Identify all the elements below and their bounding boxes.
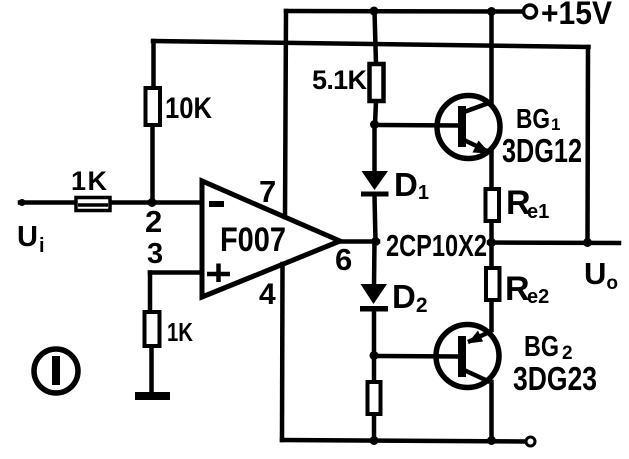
wire pin3 horizontal (150, 270, 202, 275)
svg-text:5.1K: 5.1K (312, 65, 368, 95)
resistor bottom unlabeled (368, 382, 381, 414)
resistor R 5.1K (370, 64, 384, 101)
op-amp noninverting plus mark (207, 264, 230, 283)
wire 1K bottom to ground (149, 346, 154, 393)
resistor Re2 (486, 268, 500, 300)
svg-text:BG: BG (516, 103, 550, 134)
transistor Q2 BG2 (436, 325, 499, 388)
wire bottom rail (282, 440, 525, 442)
svg-text:2CP10X2: 2CP10X2 (386, 228, 487, 263)
svg-text:2: 2 (145, 204, 162, 239)
svg-text:+15V: +15V (541, 0, 613, 31)
node junction dot bottom rail left (370, 436, 379, 445)
wire input line (20, 200, 200, 205)
svg-text:e1: e1 (527, 201, 549, 223)
wire pin4 vertical (280, 264, 285, 440)
wire feedback top horizontal (153, 41, 589, 47)
wire BG2 base (374, 354, 459, 359)
wire Re2 to BG2 emitter (489, 300, 494, 330)
svg-text:3DG12: 3DG12 (502, 132, 582, 169)
wire 5.1K top (375, 11, 377, 64)
diode D1 (361, 171, 389, 197)
node junction dot op-amp output (371, 237, 380, 246)
wire D1 top (372, 125, 377, 173)
svg-text:4: 4 (259, 278, 276, 311)
transistor Q1 BG1 (437, 96, 500, 159)
wire output right segment (489, 240, 619, 245)
wire BG1 emitter vertical (489, 152, 494, 189)
resistor R 1K input (76, 198, 110, 211)
diode D2 (360, 284, 388, 312)
wire BG1 collector vertical (489, 12, 494, 103)
wire 5.1K bottom (375, 101, 376, 125)
svg-text:3DG23: 3DG23 (513, 360, 597, 397)
wire top +15V rail (286, 9, 521, 14)
node junction dot BG2 base (370, 351, 379, 360)
node junction dot top rail right (487, 7, 496, 16)
node +15V open terminal (524, 5, 537, 18)
resistor Re1 (486, 189, 500, 221)
node junction dot Uo (583, 238, 592, 247)
node junction dot BG1 base (370, 120, 379, 129)
svg-text:R: R (505, 270, 530, 308)
wire op-amp output (340, 239, 378, 244)
wire BG1 base (375, 123, 460, 128)
svg-text:BG: BG (524, 331, 559, 363)
wire D2 top (372, 242, 377, 287)
svg-text:10K: 10K (165, 92, 212, 125)
wire 10K branch lower to node 2 (150, 125, 155, 202)
node bottom-right open terminal (526, 437, 535, 446)
resistor R 10K (146, 88, 161, 125)
op-amp U1 F007 triangle (202, 181, 340, 297)
svg-text:1K: 1K (71, 166, 108, 196)
svg-text:e2: e2 (527, 286, 549, 308)
wire bottom resistor lower (372, 414, 377, 441)
ground (135, 392, 170, 400)
wire output node to Re2 (489, 243, 494, 269)
op-amp inverting minus mark (209, 201, 224, 207)
node junction dot bottom rail right (487, 436, 496, 445)
svg-text:F007: F007 (220, 221, 286, 259)
wire bottom resistor upper (372, 356, 377, 383)
node input terminal dot (19, 199, 26, 206)
wire right vertical to output (585, 47, 590, 243)
wire Re1 to output node (489, 221, 494, 243)
node junction dot Re junction (487, 238, 496, 247)
node junction dot top rail left (370, 7, 379, 16)
wire 10K branch upper (151, 41, 156, 88)
svg-text:3: 3 (147, 238, 163, 270)
wire D2 bottom (372, 311, 377, 356)
wire pin3 vertical (148, 273, 153, 313)
svg-text:7: 7 (259, 174, 276, 209)
svg-text:6: 6 (335, 242, 352, 277)
wire pin7 vertical (285, 11, 286, 217)
node junction dot node2 (148, 198, 157, 207)
svg-text:1K: 1K (167, 317, 193, 347)
circled figure number 1 (34, 349, 78, 393)
resistor R 1K noninverting (145, 312, 160, 346)
wire BG2 collector vertical (489, 382, 494, 441)
wire D1 bottom (375, 196, 376, 242)
